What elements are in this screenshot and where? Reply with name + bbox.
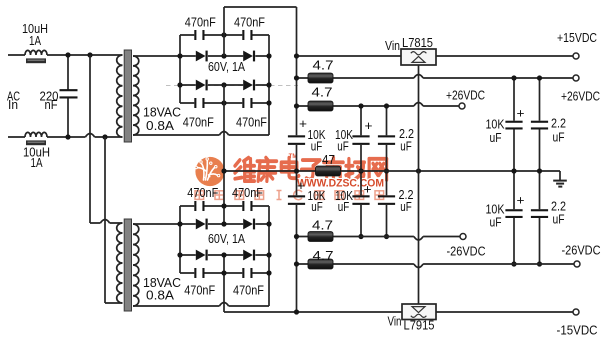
wire column E mid: [513, 130, 515, 210]
junction feed B / column C: [358, 103, 363, 108]
wire ground rail: [224, 170, 560, 172]
junction bridge1 left rail upper diode: [177, 53, 182, 58]
capacitor column C positive side: [352, 135, 369, 137]
svg-text:uF: uF: [553, 130, 565, 145]
svg-text:4.7: 4.7: [313, 248, 334, 263]
wire T1 secondary top to bridge: [133, 55, 180, 57]
watermark logo circle: [195, 157, 225, 186]
diode row 60V,1A lower of bridge1: [180, 80, 269, 91]
junction bridge2 center y=206: [221, 203, 226, 208]
wire bridge1 positive output to bus: [224, 6, 297, 8]
junction bridge2 center y=255: [221, 252, 226, 257]
capacitor 10K uF on bus (positive): [288, 135, 305, 137]
transformer T2 core: [124, 219, 131, 311]
wire column D to ground rail: [386, 145, 388, 195]
svg-text:470nF: 470nF: [234, 14, 265, 29]
wire hop +26B over regulator ground: [414, 103, 423, 107]
wire hop +26A over regulator ground: [414, 75, 423, 79]
wire column F mid: [539, 130, 541, 210]
wire positive bus upper: [296, 7, 298, 135]
wire column C to ground rail: [360, 145, 362, 195]
wire AC input bottom line: [8, 136, 123, 138]
svg-text:uF: uF: [490, 130, 502, 145]
svg-text:47: 47: [322, 152, 335, 167]
transformer T2 secondary winding: [133, 224, 139, 306]
watermark artifact dashed line across diode row: [166, 84, 298, 86]
capacitor row 470nF bottom of bridge1: [180, 98, 269, 108]
svg-text:L7915: L7915: [404, 317, 435, 332]
svg-text:470nF: 470nF: [233, 282, 264, 297]
wire T2 secondary top to bridge2: [133, 223, 180, 225]
svg-text:-26VDC: -26VDC: [447, 244, 486, 259]
junction ground rail / center bus: [221, 168, 226, 173]
wire center vertical bus (bridge outputs to ground rail): [223, 7, 225, 312]
resistor 4.7 ohm (feed A): [308, 73, 333, 83]
capacitor 220nF line filter: [60, 55, 78, 137]
wire column E upper: [513, 78, 515, 121]
svg-text:+: +: [297, 178, 305, 193]
transformer T1 primary winding: [117, 55, 123, 137]
svg-text:-26VDC: -26VDC: [562, 243, 601, 258]
wire +26 feed A (y=78): [297, 77, 573, 79]
junction +26 line / column F: [537, 75, 542, 80]
terminal +26VDC left: [459, 103, 465, 109]
wire bridge1 left rail: [179, 35, 181, 103]
junction bridge1 center y=56: [221, 53, 226, 58]
svg-text:+26VDC: +26VDC: [446, 88, 485, 103]
wire bottom dc rail to regulator: [224, 311, 402, 313]
terminal -26VDC left: [460, 234, 466, 240]
svg-text:470nF: 470nF: [183, 115, 214, 130]
wire hop -26A under regulator ground: [414, 237, 423, 241]
terminal +15VDC: [573, 53, 579, 59]
junction top line / 220nF: [65, 52, 70, 57]
junction bottom line / 220nF: [65, 134, 70, 139]
svg-text:+: +: [517, 106, 525, 121]
capacitor column D positive side: [378, 135, 395, 137]
junction bottom line / branch down: [102, 134, 107, 139]
wire AC input top line: [8, 54, 123, 56]
diode row 60V,1A lower of bridge2: [180, 250, 269, 261]
svg-text:470nF: 470nF: [187, 185, 218, 200]
wire -26 feed A (y=236.5): [297, 236, 460, 238]
regulator U2 L7915 box: [402, 304, 436, 320]
junction bus/neg feed B: [294, 261, 299, 266]
svg-text:470nF: 470nF: [184, 282, 215, 297]
svg-text:+15VDC: +15VDC: [557, 30, 597, 45]
capacitor column C negative side: [352, 195, 369, 197]
watermark text 维库电子市场网 (glyph shapes): [235, 158, 387, 181]
junction bridge1 center y=35: [221, 32, 226, 37]
diode row 60V,1A upper of bridge2: [180, 219, 269, 230]
svg-text:Vin: Vin: [388, 313, 402, 328]
junction ground rail / regulator ground: [416, 168, 421, 173]
svg-text:uF: uF: [553, 212, 565, 227]
wire column F lower: [539, 218, 541, 264]
capacitor column E negative side: [505, 209, 522, 211]
wire column E lower: [513, 218, 515, 264]
capacitor column E positive side: [505, 121, 522, 123]
junction neg feed / column D: [384, 234, 389, 239]
resistor 4.7 ohm (feed B): [308, 101, 333, 111]
regulator U2 symbol: [411, 307, 427, 318]
ground symbol: [553, 171, 567, 187]
junction bridge2 left rail upper diode: [177, 221, 182, 226]
svg-text:+: +: [364, 182, 372, 197]
svg-text:4.7: 4.7: [313, 57, 334, 72]
wire vertical from bottom line to lower transformer: [105, 137, 123, 303]
svg-text:uF: uF: [311, 199, 323, 214]
resistor 4.7 ohm (neg feed B): [308, 259, 333, 269]
junction ground rail / main bus: [294, 168, 299, 173]
wire column D upper: [386, 106, 388, 135]
junction bridge1 left rail lower diode: [177, 82, 182, 87]
capacitor row 470nF bottom of bridge2: [180, 268, 269, 278]
svg-text:uF: uF: [400, 199, 412, 214]
capacitor column F negative side: [531, 209, 548, 211]
junction bus/feed A: [294, 75, 299, 80]
svg-text:+: +: [299, 116, 307, 131]
svg-text:1A: 1A: [29, 33, 41, 48]
junction ground rail / column F: [537, 168, 542, 173]
wire -26 feed B (y=264): [297, 263, 574, 265]
junction neg feed / column C: [358, 234, 363, 239]
regulator U1 symbol: [411, 52, 427, 63]
junction top line / branch down: [87, 52, 92, 57]
junction bus/L7815 feed: [294, 53, 299, 58]
svg-text:4.7: 4.7: [312, 85, 333, 100]
junction bus/bottom rail: [294, 309, 299, 314]
svg-text:-15VDC: -15VDC: [557, 323, 598, 338]
transformer T1 secondary winding: [133, 56, 139, 135]
svg-text:uF: uF: [400, 138, 412, 153]
wire hop secondary2-bottom over bridge output: [219, 303, 228, 307]
svg-text:1A: 1A: [31, 155, 43, 170]
svg-text:470nF: 470nF: [232, 185, 263, 200]
svg-text:uF: uF: [311, 138, 323, 153]
svg-text:2.2: 2.2: [551, 116, 566, 131]
junction -26 line / column E: [511, 261, 516, 266]
junction ground rail / column D: [384, 168, 389, 173]
wire negative bus lower: [296, 205, 298, 312]
svg-text:+: +: [365, 118, 373, 133]
wire U2 output to -15VDC: [436, 311, 573, 313]
junction bridge1 center y=103: [221, 100, 226, 105]
capacitor 10K uF on bus (negative): [288, 195, 305, 197]
junction bridge1 right rail bottom cap: [266, 100, 271, 105]
svg-text:uF: uF: [490, 215, 502, 230]
svg-text:L7815: L7815: [402, 35, 433, 50]
transformer T1 core: [124, 50, 131, 142]
wire bridge1 right rail: [268, 35, 270, 135]
svg-text:uF: uF: [337, 138, 349, 153]
junction bridge1 center y=85: [221, 82, 226, 87]
junction ground rail / column C: [358, 168, 363, 173]
svg-text:uF: uF: [338, 199, 350, 214]
svg-text:60V, 1A: 60V, 1A: [208, 59, 245, 74]
svg-text:470nF: 470nF: [185, 14, 216, 29]
wire column F upper: [539, 78, 541, 121]
junction bridge2 right rail bottom cap: [266, 270, 271, 275]
resistor 47 ohm in ground rail: [316, 166, 341, 176]
wire positive bus to ground rail: [296, 145, 298, 195]
resistor 4.7 ohm (neg feed A): [308, 232, 333, 242]
wire hop lower-primary-top over vertical: [100, 220, 109, 224]
terminal -15VDC: [573, 309, 579, 315]
wire column D lower: [386, 205, 388, 237]
diode row 60V,1A upper of bridge1: [180, 51, 269, 62]
junction bridge1 right rail upper diode: [266, 53, 271, 58]
junction bridge2 left rail lower diode: [177, 252, 182, 257]
terminal +26VDC right: [573, 75, 579, 81]
wire regulator ground pin line: [418, 65, 420, 304]
wire bridge2 left rail: [179, 206, 181, 273]
transformer T2 primary winding: [117, 223, 123, 303]
regulator U1 L7815 box: [401, 49, 436, 65]
capacitor row 470nF top of bridge1: [180, 30, 269, 40]
svg-text:Vin: Vin: [385, 38, 400, 53]
junction bus/feed B: [294, 103, 299, 108]
junction ground rail / column E: [511, 168, 516, 173]
wire T1 secondary bottom to bridge: [133, 134, 269, 136]
wire hop secondary-bottom over bridge output: [219, 132, 228, 136]
wire hop -26B under regulator ground: [414, 264, 423, 268]
terminal -26VDC right: [574, 261, 580, 267]
svg-text:0.8A: 0.8A: [146, 288, 174, 303]
svg-text:nF: nF: [45, 97, 58, 112]
junction feed B / column D: [384, 103, 389, 108]
wire vertical from top line to lower transformer: [90, 55, 123, 223]
wire bridge2 right rail: [268, 206, 270, 306]
svg-text:4.7: 4.7: [312, 218, 333, 233]
inductor 10uH top (L1): [25, 50, 47, 63]
capacitor column F positive side: [531, 121, 548, 123]
svg-text:60V, 1A: 60V, 1A: [208, 231, 245, 246]
svg-text:+: +: [517, 193, 525, 208]
junction bus/neg feed A: [294, 234, 299, 239]
junction bridge2 center y=224: [221, 221, 226, 226]
wire column C upper: [360, 106, 362, 135]
junction bridge2 right rail upper diode: [266, 221, 271, 226]
wire bus to L7815 Vin: [297, 55, 402, 57]
wire T2 secondary bottom to bridge2: [133, 305, 269, 307]
junction bridge2 center y=273: [221, 270, 226, 275]
svg-text:470nF: 470nF: [236, 115, 267, 130]
capacitor row 470nF top of bridge2: [180, 201, 269, 211]
capacitor column D negative side: [378, 195, 395, 197]
svg-text:+26VDC: +26VDC: [561, 88, 600, 103]
inductor 10uH bottom (L2): [25, 132, 47, 145]
junction bridge2 right rail lower diode: [266, 252, 271, 257]
wire hop bottom AC over vertical: [85, 134, 94, 138]
wire U1 output to +15VDC: [436, 55, 573, 57]
watermark slogan row (light salmon glyphs): [195, 190, 384, 199]
wire column C lower: [360, 205, 362, 237]
wire +26 feed B (y=106): [297, 105, 459, 107]
junction bridge1 right rail lower diode: [266, 82, 271, 87]
junction +26 line / column E: [511, 75, 516, 80]
junction -26 line / column F: [537, 261, 542, 266]
svg-text:In: In: [8, 97, 18, 112]
svg-text:0.8A: 0.8A: [146, 118, 174, 133]
